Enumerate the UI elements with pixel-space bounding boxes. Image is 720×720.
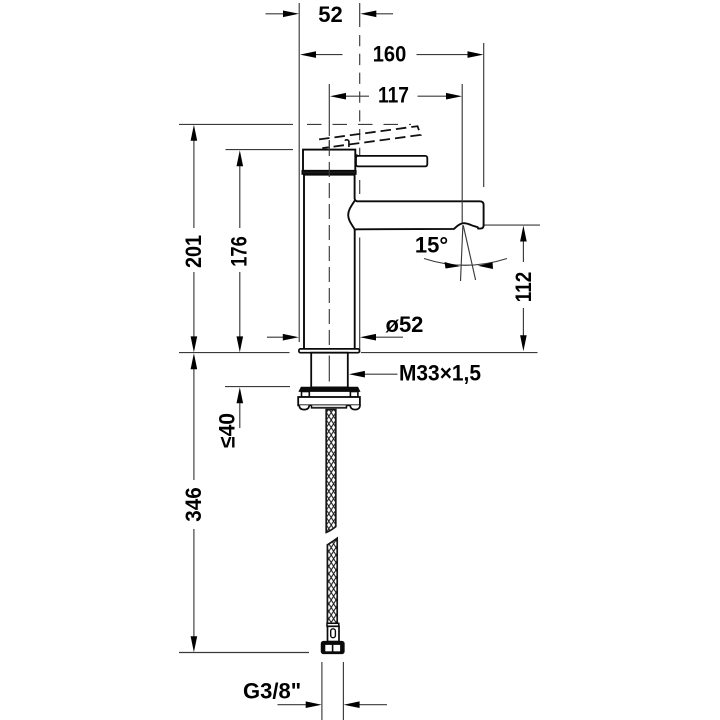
svg-text:G3/8": G3/8" <box>243 678 301 703</box>
svg-text:176: 176 <box>227 236 252 267</box>
svg-text:15°: 15° <box>415 232 448 257</box>
svg-text:112: 112 <box>511 272 536 303</box>
svg-text:M33×1,5: M33×1,5 <box>399 361 481 386</box>
svg-text:ø52: ø52 <box>386 312 424 337</box>
svg-text:117: 117 <box>378 82 409 107</box>
svg-text:52: 52 <box>318 2 342 27</box>
svg-text:201: 201 <box>181 235 206 268</box>
svg-text:≤40: ≤40 <box>215 413 240 448</box>
svg-text:160: 160 <box>373 42 407 67</box>
svg-text:346: 346 <box>181 487 206 522</box>
